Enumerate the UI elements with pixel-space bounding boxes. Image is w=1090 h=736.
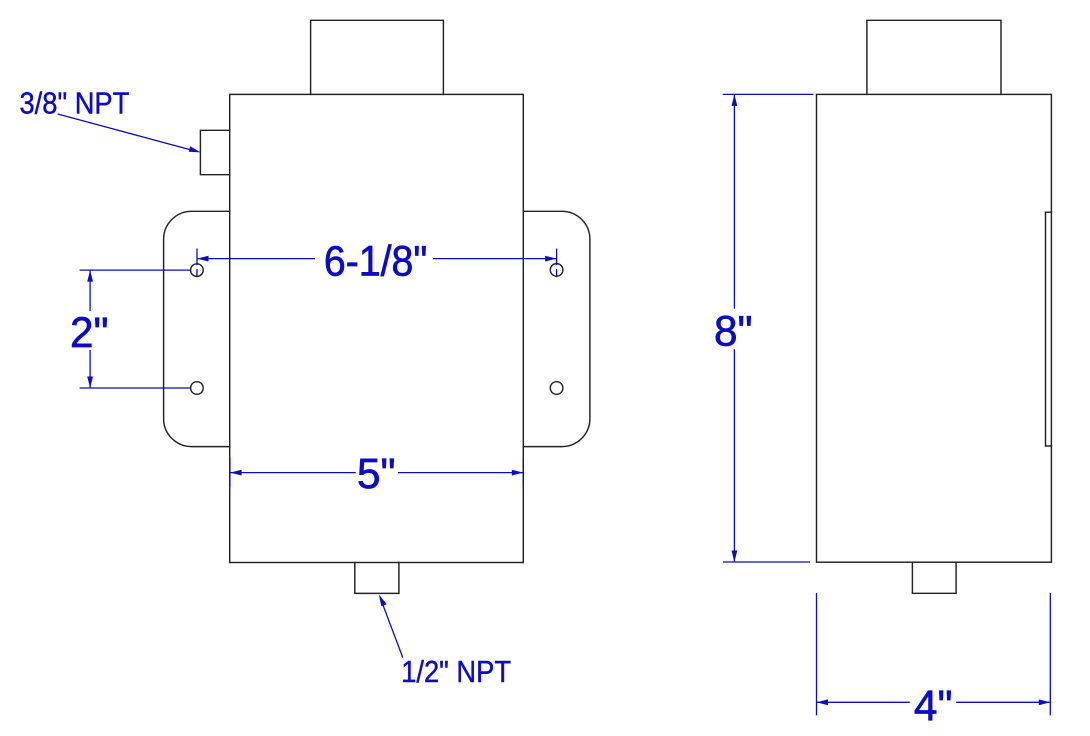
svg-text:1/2" NPT: 1/2" NPT [401, 655, 511, 689]
svg-text:3/8" NPT: 3/8" NPT [20, 86, 130, 120]
svg-text:6-1/8": 6-1/8" [324, 238, 428, 285]
svg-text:5": 5" [357, 450, 396, 497]
svg-text:4": 4" [914, 682, 953, 729]
svg-text:8": 8" [714, 308, 753, 355]
svg-text:2": 2" [70, 309, 109, 356]
